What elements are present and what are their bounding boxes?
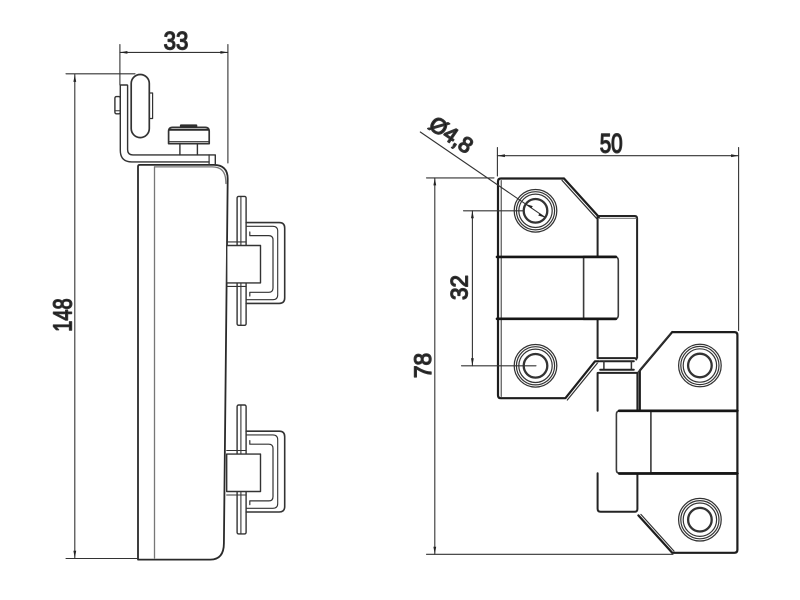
clip C inner (250, 232, 273, 296)
hole2 inner circle (524, 354, 548, 378)
sleeve2 band bottom line (620, 472, 738, 475)
hole1 ring b (516, 192, 554, 230)
clip tick below block (227, 285, 246, 287)
bracket left tab (115, 97, 120, 114)
leaf1 left edge inner line (500, 181, 502, 397)
pin column upper top double line (600, 217, 637, 219)
svg-text:50: 50 (600, 129, 623, 159)
sleeve1 block (584, 257, 619, 319)
hole1 inner circle (524, 199, 548, 223)
dim 32 line (471, 211, 473, 366)
sleeve2 block top/bottom thick overlay (619, 411, 737, 474)
knuckle upper cap (598, 358, 637, 361)
dim 50 extension right (738, 148, 740, 331)
sleeve2 band top line (620, 409, 738, 412)
dim 33 extension left (119, 45, 121, 86)
dim 148 arrow top (73, 74, 76, 82)
dim 148 arrow bottom (73, 551, 76, 559)
dim 78 line (434, 178, 436, 554)
hole2 ring b (516, 347, 554, 385)
dim dia 4,8 arrow lower (538, 213, 545, 217)
hole4 inner circle (688, 508, 712, 532)
dim 148 line (74, 74, 76, 558)
svg-text:32: 32 (446, 275, 473, 300)
clip C outer offset line (246, 226, 278, 299)
hole3 ring a (679, 344, 722, 387)
dim dia 4,8 arrow upper (526, 204, 533, 208)
clip bottom (227, 405, 285, 534)
dim 33 line (120, 51, 228, 53)
dim dia 4,8 leader line (420, 132, 545, 218)
leaf2 top chamfer inner line (638, 334, 670, 372)
hole4 ring b (681, 501, 719, 539)
bracket vertical plate (120, 85, 215, 165)
dim 33 extension right (227, 45, 229, 164)
svg-text:33: 33 (164, 27, 189, 55)
hole3 ring c (683, 349, 716, 382)
dim 78 extension top (427, 177, 495, 179)
clip top (227, 196, 285, 325)
clip strip inner line (240, 196, 242, 325)
leaf2 outline (638, 332, 737, 553)
pin column lower (598, 373, 638, 512)
dim 148 extension bottom (66, 558, 138, 560)
knob stem (180, 144, 198, 155)
hole1 ring a (514, 190, 557, 233)
dim 33 arrow right (220, 51, 228, 54)
svg-text:148: 148 (48, 298, 78, 331)
dim 148 extension top (66, 73, 135, 75)
svg-text:Ø4,8: Ø4,8 (425, 111, 478, 158)
hole2 ring a (514, 345, 557, 388)
knob cap top thick edge (170, 129, 209, 131)
body main outline (138, 165, 228, 560)
leaf1 outline (498, 179, 599, 399)
dim 50 arrow left (497, 154, 505, 157)
clip strip (237, 196, 246, 325)
dim 32 extension top (464, 210, 524, 212)
clip C outer (246, 223, 285, 304)
dim 50 extension left (496, 148, 498, 177)
leaf1 bottom chamfer inner line (567, 363, 597, 400)
dim 50 line (497, 155, 738, 157)
hole4 ring c (683, 503, 716, 536)
knob dark top bar (180, 124, 197, 127)
hole4 ring a (679, 498, 722, 541)
sleeve1 block top/bottom thick overlay (584, 257, 616, 319)
sleeve1 band top line (497, 256, 616, 259)
clip block (227, 246, 261, 283)
dim 33 arrow left (120, 51, 128, 54)
dim 78 arrow top (433, 178, 436, 186)
body inner top contour line (155, 167, 226, 184)
pin column upper (598, 216, 638, 358)
sleeve2 block (616, 411, 651, 474)
leaf2 bottom chamfer inner line (641, 514, 674, 551)
dim 32 arrow top (471, 211, 474, 219)
svg-text:78: 78 (410, 353, 437, 378)
dim 32 arrow bottom (471, 358, 474, 366)
leaf1 top chamfer inner line (562, 180, 597, 219)
bracket plate inner end line (208, 155, 210, 165)
dim 32 extension bottom (462, 365, 537, 367)
sleeve1 band bottom line (497, 317, 616, 320)
roller capsule (131, 75, 149, 138)
hole3 inner circle (688, 354, 712, 378)
dim 78 extension bottom (427, 553, 674, 555)
knob cap inner bottom line (170, 141, 209, 143)
knob cap (169, 127, 210, 143)
hole1 ring c (519, 194, 552, 227)
hole3 ring b (681, 346, 719, 384)
knuckle neck (604, 361, 632, 370)
dim 78 arrow bottom (433, 547, 436, 555)
bracket left tab inner line (115, 110, 120, 112)
hole2 ring c (519, 349, 552, 382)
roller right axle tab (149, 93, 152, 119)
knuckle lower cap (598, 370, 638, 373)
clip tick above block (227, 241, 246, 243)
body inner contour line (154, 167, 156, 558)
dim 50 arrow right (731, 154, 739, 157)
